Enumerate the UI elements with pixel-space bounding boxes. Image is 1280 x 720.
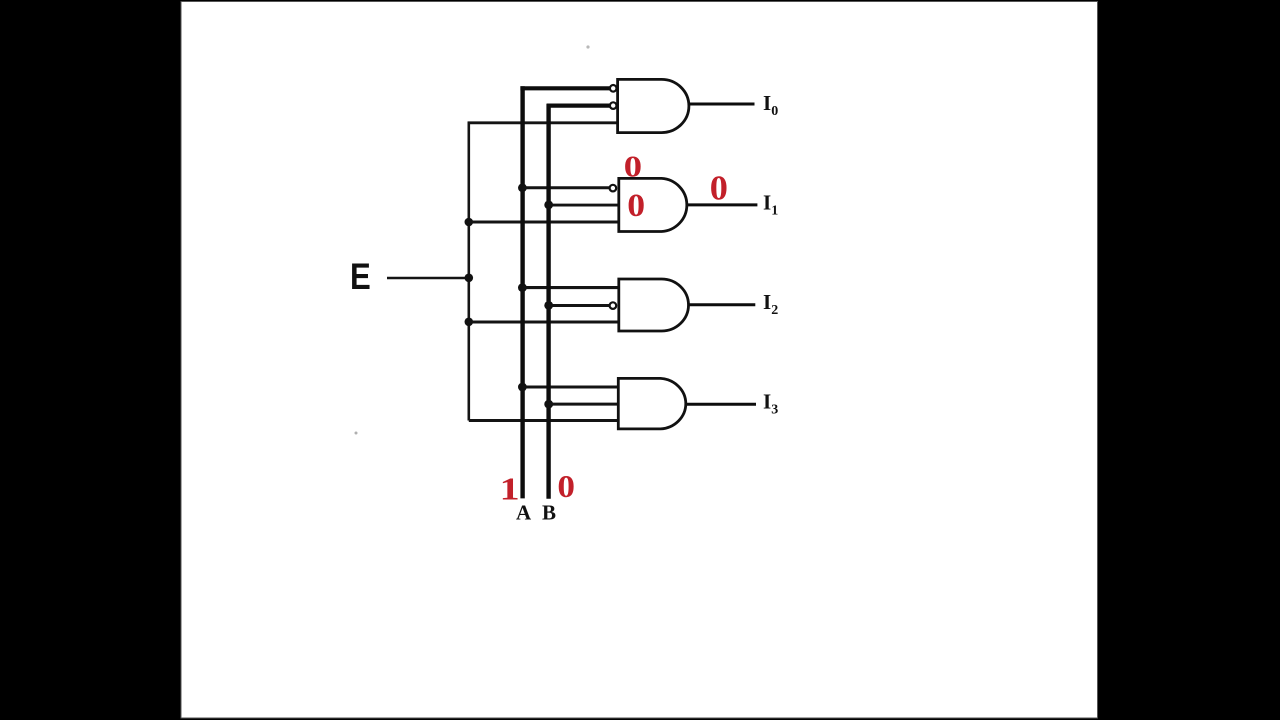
wire B to gate U4 bbox=[549, 403, 618, 406]
inverter bubble U3 input B bbox=[610, 302, 617, 309]
wire A vertical bbox=[520, 86, 524, 498]
svg-text:0: 0 bbox=[557, 470, 575, 505]
wire B vertical bbox=[546, 104, 550, 499]
wire E to gate U1 bbox=[468, 121, 618, 124]
wire A to gate U4 bbox=[522, 385, 618, 388]
svg-text:B: B bbox=[542, 501, 556, 525]
wire output I1 bbox=[688, 203, 757, 206]
inverter bubble U1 input A bbox=[610, 85, 617, 92]
wire B to gate U2 bbox=[549, 204, 618, 207]
scan speck left bbox=[355, 432, 358, 435]
svg-text:E: E bbox=[350, 257, 371, 298]
wire E to gate U2 bbox=[469, 221, 618, 224]
node E input junction bbox=[465, 274, 474, 283]
node A-U3 junction bbox=[518, 283, 527, 292]
node B-U4 junction bbox=[544, 400, 553, 409]
wire E input horizontal bbox=[387, 277, 470, 279]
wire E to gate U4 bbox=[469, 419, 618, 422]
node E-U3 junction bbox=[465, 318, 474, 327]
node B-U3 junction bbox=[544, 301, 553, 310]
node E-U2 junction bbox=[465, 218, 474, 227]
wire output I0 bbox=[689, 103, 755, 106]
node B-U2 junction bbox=[544, 201, 553, 210]
svg-text:0: 0 bbox=[710, 168, 728, 207]
svg-text:1: 1 bbox=[500, 471, 520, 506]
node A-U2 junction bbox=[518, 183, 527, 192]
inverter bubble U1 input B bbox=[610, 102, 617, 109]
wire output I3 bbox=[687, 403, 756, 406]
wire B to gate U3 bbox=[549, 304, 610, 307]
and-gate U1 (output I0) bbox=[618, 79, 689, 132]
wire A to gate U1 bbox=[520, 86, 610, 90]
wire E bus vertical bbox=[467, 122, 470, 421]
wire A to gate U2 bbox=[522, 186, 609, 189]
white page bbox=[181, 2, 1098, 719]
wire E to gate U3 bbox=[469, 321, 618, 324]
inverter bubble U2 input A bbox=[610, 185, 617, 192]
svg-text:0: 0 bbox=[627, 187, 645, 224]
wire output I2 bbox=[688, 303, 755, 306]
wire B to gate U1 bbox=[547, 103, 610, 107]
svg-text:0: 0 bbox=[624, 150, 642, 184]
and-gate U3 (output I2) bbox=[619, 279, 689, 331]
node A-U4 junction bbox=[518, 383, 527, 392]
scan speck top bbox=[586, 45, 589, 48]
wire A to gate U3 bbox=[522, 286, 618, 289]
and-gate U2 (output I1) bbox=[619, 178, 687, 231]
and-gate U4 (output I3) bbox=[618, 378, 686, 429]
